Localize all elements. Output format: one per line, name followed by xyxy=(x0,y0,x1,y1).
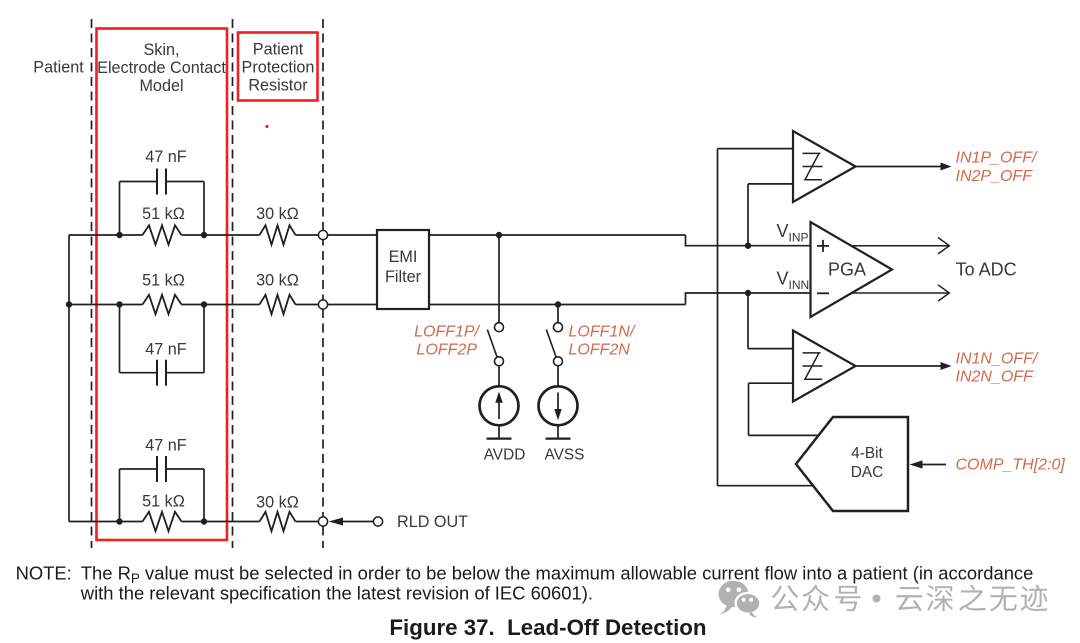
svg-text:Protection: Protection xyxy=(242,58,315,76)
svg-text:47 nF: 47 nF xyxy=(145,437,187,455)
svg-text:LOFF1N/: LOFF1N/ xyxy=(569,324,636,341)
svg-text:47 nF: 47 nF xyxy=(145,341,187,359)
svg-text:47 nF: 47 nF xyxy=(145,148,187,166)
svg-text:30 kΩ: 30 kΩ xyxy=(256,494,299,512)
svg-text:AVSS: AVSS xyxy=(545,447,585,464)
svg-text:EMI: EMI xyxy=(389,248,418,266)
svg-text:VINN: VINN xyxy=(777,268,810,292)
svg-text:DAC: DAC xyxy=(851,464,884,481)
svg-text:Electrode Contact: Electrode Contact xyxy=(97,59,226,77)
svg-text:VINP: VINP xyxy=(777,221,809,245)
svg-text:30 kΩ: 30 kΩ xyxy=(256,205,299,223)
svg-text:PGA: PGA xyxy=(828,259,866,279)
svg-text:IN1N_OFF/: IN1N_OFF/ xyxy=(956,351,1039,368)
svg-text:with the relevant specificatio: with the relevant specification the late… xyxy=(80,583,593,604)
svg-text:Patient: Patient xyxy=(33,58,84,76)
svg-text:51 kΩ: 51 kΩ xyxy=(142,205,185,223)
svg-text:COMP_TH[2:0]: COMP_TH[2:0] xyxy=(956,457,1066,474)
svg-text:51 kΩ: 51 kΩ xyxy=(142,493,185,511)
svg-text:51 kΩ: 51 kΩ xyxy=(142,272,185,290)
svg-text:To ADC: To ADC xyxy=(956,259,1017,279)
svg-text:IN1P_OFF/: IN1P_OFF/ xyxy=(956,150,1038,167)
svg-text:Model: Model xyxy=(139,77,183,95)
svg-text:Filter: Filter xyxy=(385,268,422,286)
svg-text:Resistor: Resistor xyxy=(248,76,308,94)
svg-text:AVDD: AVDD xyxy=(484,447,526,464)
svg-text:LOFF2N: LOFF2N xyxy=(569,342,631,359)
svg-text:RLD OUT: RLD OUT xyxy=(397,513,468,531)
svg-text:LOFF1P/: LOFF1P/ xyxy=(414,324,480,341)
svg-text:Patient: Patient xyxy=(253,40,304,58)
svg-text:Figure 37. Lead-Off Detection: Figure 37. Lead-Off Detection xyxy=(389,615,706,640)
svg-text:IN2N_OFF: IN2N_OFF xyxy=(956,369,1035,386)
svg-text:Skin,: Skin, xyxy=(144,41,180,59)
svg-text:4-Bit: 4-Bit xyxy=(851,445,883,462)
svg-text:30 kΩ: 30 kΩ xyxy=(256,272,299,290)
svg-text:NOTE:: NOTE: xyxy=(16,563,72,584)
svg-text:IN2P_OFF: IN2P_OFF xyxy=(956,168,1034,185)
svg-text:LOFF2P: LOFF2P xyxy=(417,342,478,359)
